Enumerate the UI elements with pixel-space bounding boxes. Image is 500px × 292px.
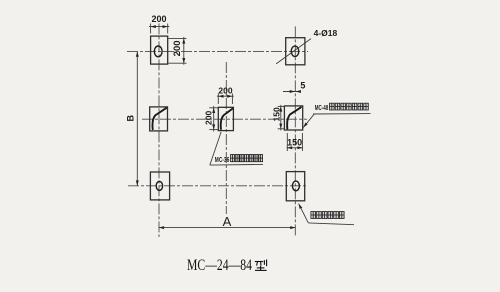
svg-text:5: 5 [300, 81, 305, 91]
svg-text:150: 150 [287, 137, 302, 147]
svg-text:B: B [126, 114, 136, 121]
svg-text:200: 200 [172, 40, 183, 56]
svg-text:200: 200 [204, 111, 214, 125]
svg-text:4-Ø18: 4-Ø18 [314, 28, 338, 38]
svg-text:MC-48: MC-48 [315, 105, 329, 112]
svg-text:A: A [223, 214, 232, 229]
svg-text:MC—24—84: MC—24—84 [187, 257, 252, 274]
svg-text:200: 200 [151, 14, 166, 24]
svg-text:200: 200 [218, 85, 232, 95]
svg-text:150: 150 [272, 107, 282, 121]
svg-text:MC-36: MC-36 [215, 155, 230, 164]
